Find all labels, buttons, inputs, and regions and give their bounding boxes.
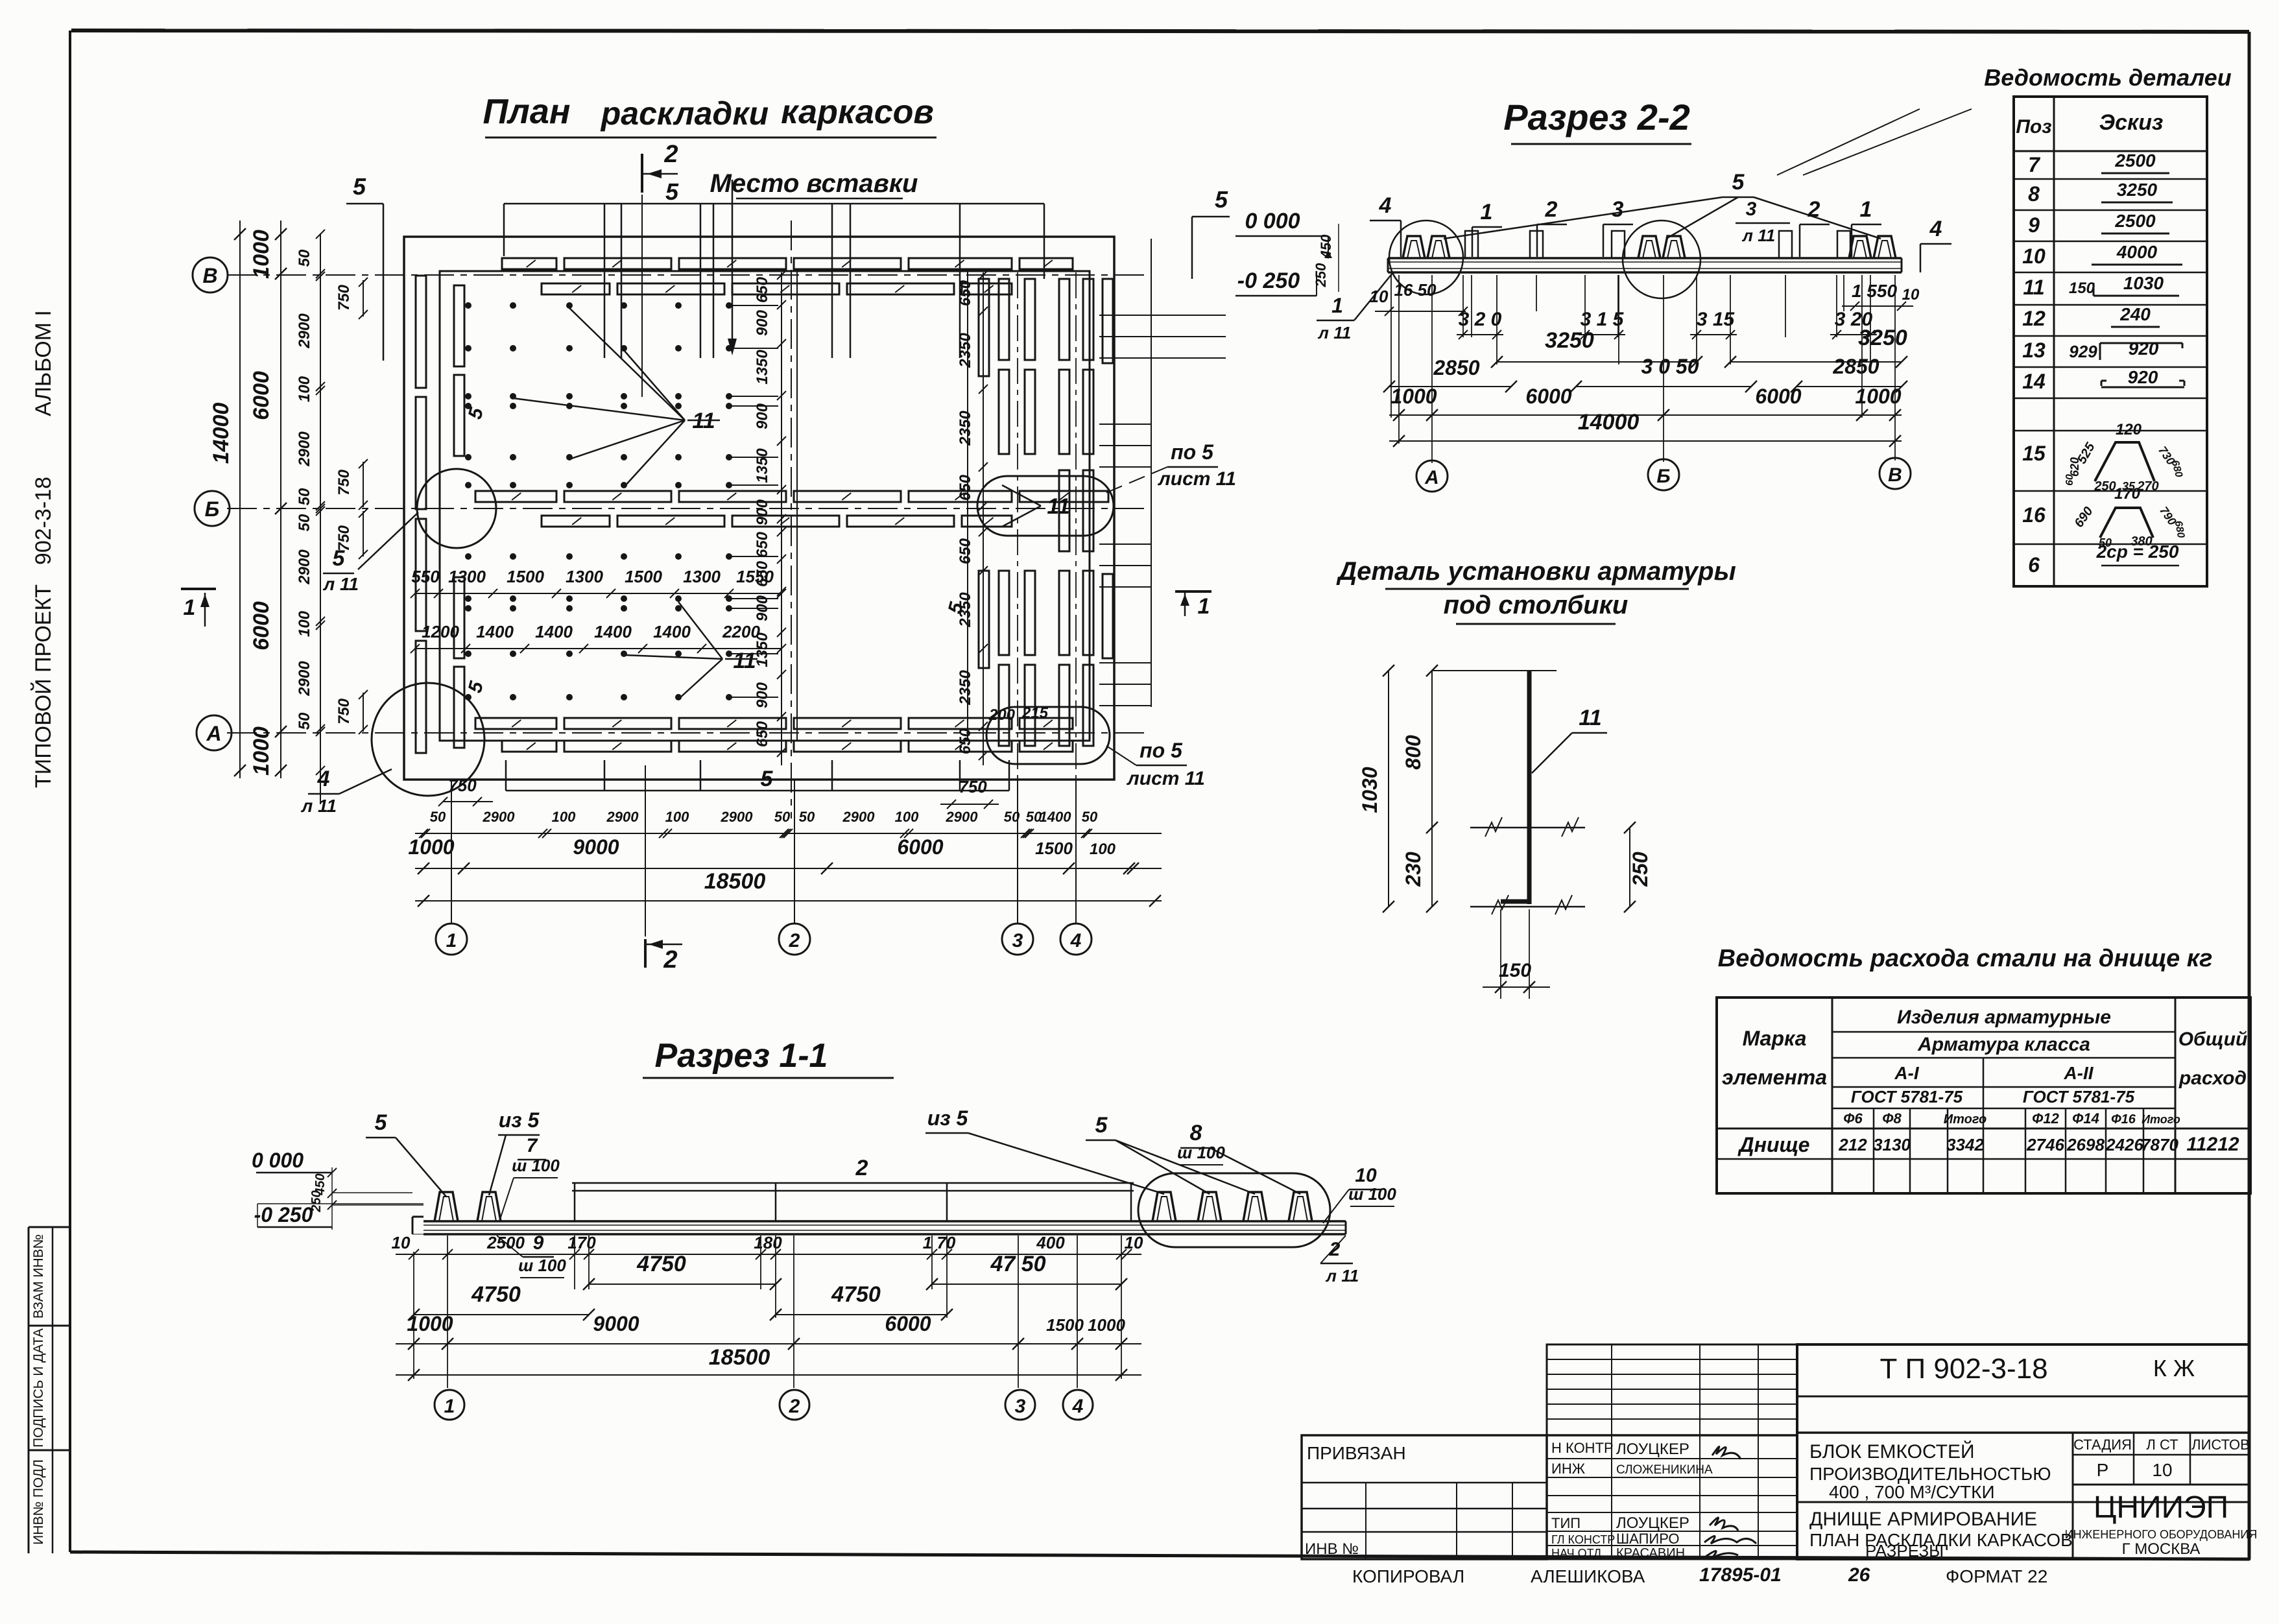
footer copy line xyxy=(1352,1564,2047,1586)
details table row 12 xyxy=(2022,304,2160,330)
svg-text:ШАПИРО: ШАПИРО xyxy=(1616,1531,1680,1547)
svg-text:620: 620 xyxy=(2068,457,2081,477)
detail rebar item 11 vertical bar xyxy=(1501,671,1529,904)
svg-text:1400: 1400 xyxy=(594,622,632,641)
svg-text:900: 900 xyxy=(754,309,771,336)
mid-panel horizontal dimension chain 1200-1400-2200 xyxy=(411,622,786,653)
svg-text:50: 50 xyxy=(296,488,313,505)
svg-text:Л СТ: Л СТ xyxy=(2146,1437,2178,1453)
svg-text:0 000: 0 000 xyxy=(1245,209,1300,233)
svg-text:1: 1 xyxy=(184,595,196,620)
svg-text:16 50: 16 50 xyxy=(1394,280,1437,300)
svg-text:4000: 4000 xyxy=(2116,242,2158,262)
svg-text:1000: 1000 xyxy=(1390,385,1437,408)
svg-text:расход: расход xyxy=(2178,1068,2247,1089)
details table row 15 xyxy=(2022,421,2184,494)
svg-text:л 11: л 11 xyxy=(300,796,337,816)
svg-text:5: 5 xyxy=(353,173,366,200)
section 1-1 right trapezoid cluster xyxy=(1152,1192,1312,1221)
svg-text:2900: 2900 xyxy=(296,313,313,349)
svg-text:3250: 3250 xyxy=(1858,326,1907,350)
axis line 4 vertical xyxy=(1075,272,1077,780)
plan outer slab rectangle xyxy=(404,237,1114,780)
detail top extension line xyxy=(1432,670,1557,671)
horizontal frame bars row B (top inner) xyxy=(542,283,1012,294)
axis line Б horizontal xyxy=(227,508,1148,509)
svg-text:Р: Р xyxy=(2097,1460,2109,1480)
svg-text:12: 12 xyxy=(2022,307,2046,330)
svg-text:60: 60 xyxy=(2064,474,2075,486)
svg-text:ПРИВЯЗАН: ПРИВЯЗАН xyxy=(1307,1443,1406,1463)
detail dim 1030 overall xyxy=(1358,665,1394,913)
svg-text:1300: 1300 xyxy=(683,567,721,586)
section 2-2 level mark -0.250 xyxy=(1235,269,1317,296)
svg-text:26: 26 xyxy=(1848,1564,1870,1586)
central void wall line right xyxy=(967,271,968,741)
svg-text:1300: 1300 xyxy=(448,567,486,586)
svg-text:1000: 1000 xyxy=(249,230,274,279)
details table row 7 xyxy=(2028,150,2169,176)
svg-text:Общий: Общий xyxy=(2178,1029,2248,1050)
svg-text:А: А xyxy=(1424,467,1439,488)
note по 5 лист 11 (bottom right) xyxy=(1106,739,1205,789)
svg-text:Арматура класса: Арматура класса xyxy=(1917,1034,2090,1055)
svg-text:ТИПОВОЙ ПРОЕКТ: ТИПОВОЙ ПРОЕКТ xyxy=(31,584,56,788)
detail slab bottom line xyxy=(1470,895,1585,914)
svg-text:3250: 3250 xyxy=(1545,328,1594,353)
svg-text:по 5: по 5 xyxy=(1139,739,1183,762)
section 2-2 trapezoid pair at Б xyxy=(1638,236,1685,258)
section 1-1 axis circle 4 xyxy=(1063,1390,1093,1420)
interior vertical dimension strip (panel split) xyxy=(754,270,786,765)
svg-text:2850: 2850 xyxy=(1433,356,1479,379)
svg-text:1550: 1550 xyxy=(736,567,774,586)
svg-text:9000: 9000 xyxy=(573,835,619,859)
section cut mark 2 (bottom) xyxy=(645,939,682,973)
svg-text:л 11: л 11 xyxy=(322,574,359,594)
section 2-2 trapezoid pair at A xyxy=(1403,236,1450,258)
svg-text:ДНИЩЕ АРМИРОВАНИЕ: ДНИЩЕ АРМИРОВАНИЕ xyxy=(1809,1509,2037,1530)
svg-text:11: 11 xyxy=(1579,706,1601,730)
svg-text:Ф16: Ф16 xyxy=(2111,1112,2136,1127)
svg-text:750: 750 xyxy=(959,777,987,796)
svg-text:0 000: 0 000 xyxy=(252,1149,304,1172)
svg-text:ш 100: ш 100 xyxy=(1348,1184,1396,1204)
svg-text:СЛОЖЕНИКИНА: СЛОЖЕНИКИНА xyxy=(1616,1463,1713,1477)
svg-text:920: 920 xyxy=(2129,339,2159,359)
svg-text:лист 11: лист 11 xyxy=(1126,768,1205,789)
svg-text:1500: 1500 xyxy=(507,567,544,586)
svg-text:120: 120 xyxy=(2116,421,2142,438)
svg-text:КОПИРОВАЛ: КОПИРОВАЛ xyxy=(1352,1566,1464,1586)
section cut mark 1 (right) xyxy=(1175,591,1211,619)
section 1-1 labels right xyxy=(925,1106,1396,1285)
svg-text:2: 2 xyxy=(663,141,678,168)
svg-text:100: 100 xyxy=(296,376,313,402)
axis circle 2 (plan) xyxy=(779,924,810,955)
axis circle А xyxy=(197,715,232,750)
detail circle at plan bottom-left corner xyxy=(372,683,484,796)
svg-text:2: 2 xyxy=(855,1156,868,1180)
svg-text:ПОДПИСЬ И ДАТА: ПОДПИСЬ И ДАТА xyxy=(31,1328,46,1448)
axis line 3 vertical xyxy=(1017,272,1018,780)
detail oval callout right middle with label 11 xyxy=(977,476,1114,536)
section 1-1 labels left xyxy=(366,1108,560,1221)
svg-text:БЛОК ЕМКОСТЕЙ: БЛОК ЕМКОСТЕЙ xyxy=(1809,1440,1975,1463)
svg-text:900: 900 xyxy=(754,682,771,708)
svg-text:14000: 14000 xyxy=(1578,410,1640,435)
svg-text:2900: 2900 xyxy=(296,661,313,697)
svg-text:ТИП: ТИП xyxy=(1551,1515,1581,1531)
svg-text:2850: 2850 xyxy=(1832,355,1879,378)
svg-text:2900: 2900 xyxy=(721,809,754,825)
section 2-2 dims row 3250 3250 xyxy=(1491,326,1907,368)
svg-text:Ф6: Ф6 xyxy=(1843,1110,1863,1127)
svg-text:16: 16 xyxy=(2022,503,2046,527)
label 4 Л11 bottom left of plan xyxy=(300,767,392,816)
svg-text:650: 650 xyxy=(957,280,974,306)
svg-text:900: 900 xyxy=(754,499,771,525)
svg-text:2350: 2350 xyxy=(957,333,974,368)
svg-text:4750: 4750 xyxy=(636,1252,686,1276)
section 2-2 level mark 0.000 xyxy=(1235,209,1332,258)
svg-text:Н КОНТР: Н КОНТР xyxy=(1551,1440,1614,1456)
svg-text:РАЗРЕЗЫ: РАЗРЕЗЫ xyxy=(1865,1541,1944,1560)
svg-text:2200: 2200 xyxy=(722,622,760,641)
svg-text:2500: 2500 xyxy=(2114,150,2156,171)
svg-text:2: 2 xyxy=(789,1396,800,1417)
svg-text:250: 250 xyxy=(1313,263,1329,287)
axis line 2 vertical xyxy=(791,221,792,818)
axis line B horizontal xyxy=(227,274,1148,276)
horizontal frame bars row F (bottom outer) xyxy=(502,741,1073,752)
svg-text:Ф12: Ф12 xyxy=(2032,1110,2059,1127)
svg-text:10: 10 xyxy=(1355,1165,1377,1186)
svg-text:Деталь установки арматуры: Деталь установки арматуры xyxy=(1336,557,1736,586)
svg-text:3: 3 xyxy=(1746,198,1757,220)
svg-text:2: 2 xyxy=(789,930,800,951)
svg-text:ФОРМАТ 22: ФОРМАТ 22 xyxy=(1946,1566,2047,1586)
horizontal frame bars row A (top outer) xyxy=(502,258,1073,269)
svg-text:из 5: из 5 xyxy=(927,1106,969,1130)
svg-text:л 11: л 11 xyxy=(1317,323,1351,342)
horizontal frame bars row D (middle lower) xyxy=(542,516,1012,527)
svg-text:3 0 50: 3 0 50 xyxy=(1641,355,1699,378)
svg-text:2698: 2698 xyxy=(2066,1135,2105,1154)
title block Привязан section xyxy=(1302,1435,1547,1559)
label 11 with leader fan (lower panel) xyxy=(624,602,758,699)
section 2-2 axis circle А xyxy=(1416,460,1448,492)
svg-text:1000: 1000 xyxy=(408,835,454,859)
svg-text:ВЗАМ ИНВ№: ВЗАМ ИНВ№ xyxy=(31,1234,46,1319)
detail circle at axis Б left end xyxy=(417,469,496,548)
svg-text:18500: 18500 xyxy=(704,869,766,894)
svg-text:7870: 7870 xyxy=(2141,1135,2178,1154)
section 2-2 axis circle Б xyxy=(1648,459,1679,490)
title block signature rows xyxy=(1547,1435,1797,1560)
svg-text:15: 15 xyxy=(2022,442,2046,465)
vertical frame bars right cluster xyxy=(979,279,1113,746)
svg-text:АЛЕШИКОВА: АЛЕШИКОВА xyxy=(1531,1566,1645,1586)
svg-text:2: 2 xyxy=(1545,197,1558,222)
svg-text:4: 4 xyxy=(1929,217,1942,241)
svg-text:Итого: Итого xyxy=(1944,1112,1987,1127)
svg-text:1: 1 xyxy=(1860,197,1872,222)
svg-text:Место вставки: Место вставки xyxy=(710,169,918,198)
svg-text:ш 100: ш 100 xyxy=(1177,1143,1225,1162)
svg-text:1000: 1000 xyxy=(249,726,274,776)
plan bottom dimension chain 1000-9000-6000-1500-100 xyxy=(408,835,1162,874)
svg-text:5: 5 xyxy=(761,767,774,791)
section 1-1 level mark 0.000 xyxy=(252,1149,424,1230)
svg-text:14000: 14000 xyxy=(209,403,233,464)
svg-text:2900: 2900 xyxy=(606,809,639,825)
section 1-1 extension verticals xyxy=(414,1236,1121,1388)
section 2-2 dims row 1000 6000 6000 1000 xyxy=(1389,385,1902,421)
stirrup dots grid upper panel xyxy=(465,302,778,488)
central void wall line left xyxy=(796,271,798,741)
svg-text:2900: 2900 xyxy=(296,549,313,585)
svg-text:50: 50 xyxy=(430,809,446,825)
svg-text:2900: 2900 xyxy=(296,431,313,467)
svg-text:-0 250: -0 250 xyxy=(1237,269,1300,293)
svg-text:150: 150 xyxy=(1499,960,1531,981)
svg-text:50: 50 xyxy=(296,249,313,267)
label 5 under bottom bars bracket xyxy=(506,760,1009,791)
svg-text:7: 7 xyxy=(527,1135,538,1156)
plan bottom 750 dims xyxy=(438,776,999,809)
plan bottom fine dimension chain 50-2900-100 row xyxy=(415,809,1162,838)
section cut 2 trace top xyxy=(641,195,643,397)
svg-text:750: 750 xyxy=(335,469,353,496)
section 1-1 left trapezoid pair xyxy=(435,1192,501,1221)
svg-text:920: 920 xyxy=(2128,367,2158,387)
section 2-2 small dims row (320 315 315 320) xyxy=(1457,309,1877,339)
svg-text:Разрез 1-1: Разрез 1-1 xyxy=(655,1037,828,1075)
svg-text:400: 400 xyxy=(1036,1233,1065,1252)
svg-text:2500: 2500 xyxy=(2114,211,2156,231)
svg-text:3: 3 xyxy=(1015,1396,1026,1417)
section 1-1 dims row 4750 4750 (lower) xyxy=(408,1282,953,1320)
svg-text:5: 5 xyxy=(1732,170,1745,195)
svg-text:лист 11: лист 11 xyxy=(1157,468,1236,490)
steel table data row xyxy=(1737,1133,2239,1156)
svg-text:Днище: Днище xyxy=(1737,1133,1810,1156)
svg-text:Б: Б xyxy=(1656,466,1670,487)
section 2-2 dims 16 50 and 10 xyxy=(1370,280,1920,316)
svg-text:ИНЖЕНЕРНОГО ОБОРУДОВАНИЯ: ИНЖЕНЕРНОГО ОБОРУДОВАНИЯ xyxy=(2065,1528,2258,1541)
svg-text:по 5: по 5 xyxy=(1171,440,1214,464)
svg-text:450: 450 xyxy=(1318,234,1334,259)
section 2-2 top labels with leaders xyxy=(1370,109,1972,272)
detail oval callout bottom right xyxy=(986,707,1110,764)
svg-text:элемента: элемента xyxy=(1722,1066,1827,1089)
svg-text:50: 50 xyxy=(774,809,791,825)
svg-text:6000: 6000 xyxy=(249,371,274,420)
svg-text:6000: 6000 xyxy=(897,835,943,859)
stirrup dots grid lower panel xyxy=(465,553,778,700)
svg-text:1000: 1000 xyxy=(1088,1315,1125,1335)
svg-text:1: 1 xyxy=(1331,294,1343,317)
svg-text:250: 250 xyxy=(2094,479,2116,494)
svg-text:3130: 3130 xyxy=(1873,1135,1911,1154)
svg-text:Изделия арматурные: Изделия арматурные xyxy=(1897,1007,2111,1028)
axis circle Б xyxy=(195,491,230,526)
title block main frame xyxy=(1547,1344,2249,1559)
svg-text:50: 50 xyxy=(1082,809,1098,825)
svg-text:180: 180 xyxy=(754,1233,782,1252)
svg-text:170: 170 xyxy=(2114,485,2141,503)
svg-text:212: 212 xyxy=(1838,1135,1867,1154)
vertical frame bars left column 2 xyxy=(454,285,464,748)
details table row 9 xyxy=(2028,211,2169,237)
svg-text:раскладки: раскладки xyxy=(600,95,769,132)
svg-text:50: 50 xyxy=(296,712,313,730)
svg-text:2: 2 xyxy=(1808,197,1820,222)
section 1-1 title xyxy=(643,1037,894,1078)
svg-text:4750: 4750 xyxy=(831,1282,881,1307)
vertical frame bars left column 1 xyxy=(416,276,426,753)
svg-text:НАЧ ОТД: НАЧ ОТД xyxy=(1551,1547,1601,1560)
svg-text:2: 2 xyxy=(663,946,677,973)
svg-text:2: 2 xyxy=(1329,1239,1341,1260)
details table row 11 xyxy=(2023,273,2179,299)
svg-text:СТАДИЯ: СТАДИЯ xyxy=(2073,1437,2132,1453)
svg-text:АЛЬБОМ I: АЛЬБОМ I xyxy=(31,310,56,416)
svg-text:Ведомость деталеи: Ведомость деталеи xyxy=(1984,64,2231,91)
svg-text:100: 100 xyxy=(1090,841,1116,858)
svg-text:1500: 1500 xyxy=(625,567,662,586)
svg-text:1500: 1500 xyxy=(1035,839,1073,858)
plan title: План раскладки каркасов xyxy=(483,92,937,137)
svg-text:2900: 2900 xyxy=(946,809,979,825)
section 1-1 oval callout right xyxy=(1138,1173,1330,1247)
svg-text:4750: 4750 xyxy=(471,1282,521,1307)
svg-text:ГЛ КОНСТР: ГЛ КОНСТР xyxy=(1551,1533,1615,1546)
svg-text:11: 11 xyxy=(2023,276,2044,299)
svg-text:ш 100: ш 100 xyxy=(518,1256,566,1275)
axis circle 4 (plan) xyxy=(1060,924,1092,955)
svg-text:750: 750 xyxy=(335,525,353,551)
svg-text:ЛОУЦКЕР: ЛОУЦКЕР xyxy=(1616,1440,1689,1458)
svg-text:1300: 1300 xyxy=(566,567,603,586)
svg-text:ИНВ№ ПОДЛ: ИНВ№ ПОДЛ xyxy=(31,1459,46,1545)
label 5 Л11 left of plan xyxy=(322,512,418,594)
plan axis column extension lines to bottom circles xyxy=(451,780,1076,924)
svg-text:650: 650 xyxy=(957,728,974,754)
axis line А horizontal xyxy=(227,732,1148,734)
left margin rotated text: album / project id xyxy=(31,310,56,788)
section 2-2 detail circle at A xyxy=(1389,221,1463,294)
svg-text:900: 900 xyxy=(754,403,771,429)
plan bottom dimension 18500 overall xyxy=(415,869,1162,907)
svg-text:ПРОИЗВОДИТЕЛЬНОСТЬЮ: ПРОИЗВОДИТЕЛЬНОСТЬЮ xyxy=(1809,1464,2051,1484)
details table row 8 xyxy=(2028,180,2173,206)
section 1-1 axis circle 3 xyxy=(1005,1390,1035,1420)
svg-text:11: 11 xyxy=(733,649,756,673)
detail label 11 with leader xyxy=(1532,706,1607,773)
svg-text:750: 750 xyxy=(335,698,353,724)
svg-text:6: 6 xyxy=(2028,553,2040,577)
svg-text:250: 250 xyxy=(309,1190,324,1212)
svg-text:6000: 6000 xyxy=(249,601,274,651)
svg-text:ЛИСТОВ: ЛИСТОВ xyxy=(2191,1437,2250,1453)
axis circle В xyxy=(193,257,228,293)
section 2-2 slab xyxy=(1388,258,1902,272)
svg-text:240: 240 xyxy=(2119,304,2151,324)
details table row 10 xyxy=(2022,242,2182,268)
section 2-2 extension verticals xyxy=(1391,275,1895,463)
svg-text:План: План xyxy=(483,92,570,131)
mid-panel horizontal dimension chain 550-1300-1500 xyxy=(411,567,786,598)
svg-text:550: 550 xyxy=(411,567,440,586)
svg-text:5: 5 xyxy=(665,178,679,205)
svg-text:1400: 1400 xyxy=(476,622,514,641)
title block institute name xyxy=(2065,1490,2258,1558)
svg-text:2500: 2500 xyxy=(486,1233,525,1252)
svg-text:ГОСТ 5781-75: ГОСТ 5781-75 xyxy=(1851,1087,1963,1106)
svg-text:ш 100: ш 100 xyxy=(512,1156,560,1175)
detail dim 250 right xyxy=(1624,822,1652,913)
svg-text:ИНЖ: ИНЖ xyxy=(1551,1461,1586,1477)
svg-text:Ведомость расхода стали на дни: Ведомость расхода стали на днище кг xyxy=(1718,945,2213,972)
svg-text:11212: 11212 xyxy=(2186,1134,2239,1155)
title block stage cells xyxy=(2073,1433,2250,1559)
svg-text:Эскиз: Эскиз xyxy=(2099,110,2164,135)
axis circle 3 (plan) xyxy=(1002,924,1033,955)
detail slab top line with breaks xyxy=(1470,817,1585,837)
svg-text:1030: 1030 xyxy=(1358,767,1381,813)
details table row 16 xyxy=(2022,485,2186,549)
horizontal frame bars row C (middle upper) xyxy=(475,491,1108,502)
section 2-2 axis circle В xyxy=(1879,458,1911,489)
svg-text:230: 230 xyxy=(1402,852,1425,887)
section 1-1 dim 18500 overall xyxy=(396,1345,1141,1381)
section 2-2 detail circle at Б xyxy=(1623,221,1700,298)
svg-text:5: 5 xyxy=(375,1110,388,1135)
section 2-2 rotated 450 250 dims xyxy=(1313,224,1339,292)
section cut mark 2 (top) xyxy=(642,141,678,193)
svg-text:1: 1 xyxy=(446,930,457,951)
plan left dimension chain 1000-6000-6000-1000 xyxy=(249,221,287,778)
svg-text:1: 1 xyxy=(1481,200,1493,224)
plan left fine dimension chain 50-2900-100 xyxy=(296,230,368,804)
svg-text:14: 14 xyxy=(2022,370,2046,393)
svg-text:1030: 1030 xyxy=(2123,273,2164,293)
svg-text:900: 900 xyxy=(754,595,771,621)
section 2-2 label 1 Л11 lower left xyxy=(1317,272,1393,342)
svg-text:650: 650 xyxy=(754,531,771,558)
svg-text:10: 10 xyxy=(2022,245,2046,268)
svg-text:Б: Б xyxy=(205,497,220,521)
svg-text:ГОСТ 5781-75: ГОСТ 5781-75 xyxy=(2023,1087,2135,1106)
svg-text:л 11: л 11 xyxy=(1325,1266,1359,1285)
svg-text:3342: 3342 xyxy=(1946,1135,1984,1154)
svg-text:3250: 3250 xyxy=(2117,180,2158,200)
svg-text:100: 100 xyxy=(552,809,576,825)
svg-text:ЦНИИЭП: ЦНИИЭП xyxy=(2094,1490,2228,1525)
svg-text:5: 5 xyxy=(1215,186,1228,213)
section 2-2 posts xyxy=(1465,231,1850,258)
svg-text:ЛОУЦКЕР: ЛОУЦКЕР xyxy=(1616,1514,1689,1532)
plan left dimension 14000 overall xyxy=(209,221,246,778)
svg-text:1350: 1350 xyxy=(754,448,771,483)
svg-text:902-3-18: 902-3-18 xyxy=(31,477,56,565)
svg-text:50: 50 xyxy=(296,514,313,531)
note по 5 лист 11 (right middle) xyxy=(1103,440,1236,494)
svg-text:400 , 700 М³/СУТКИ: 400 , 700 М³/СУТКИ xyxy=(1829,1482,1995,1502)
svg-text:100: 100 xyxy=(665,809,689,825)
